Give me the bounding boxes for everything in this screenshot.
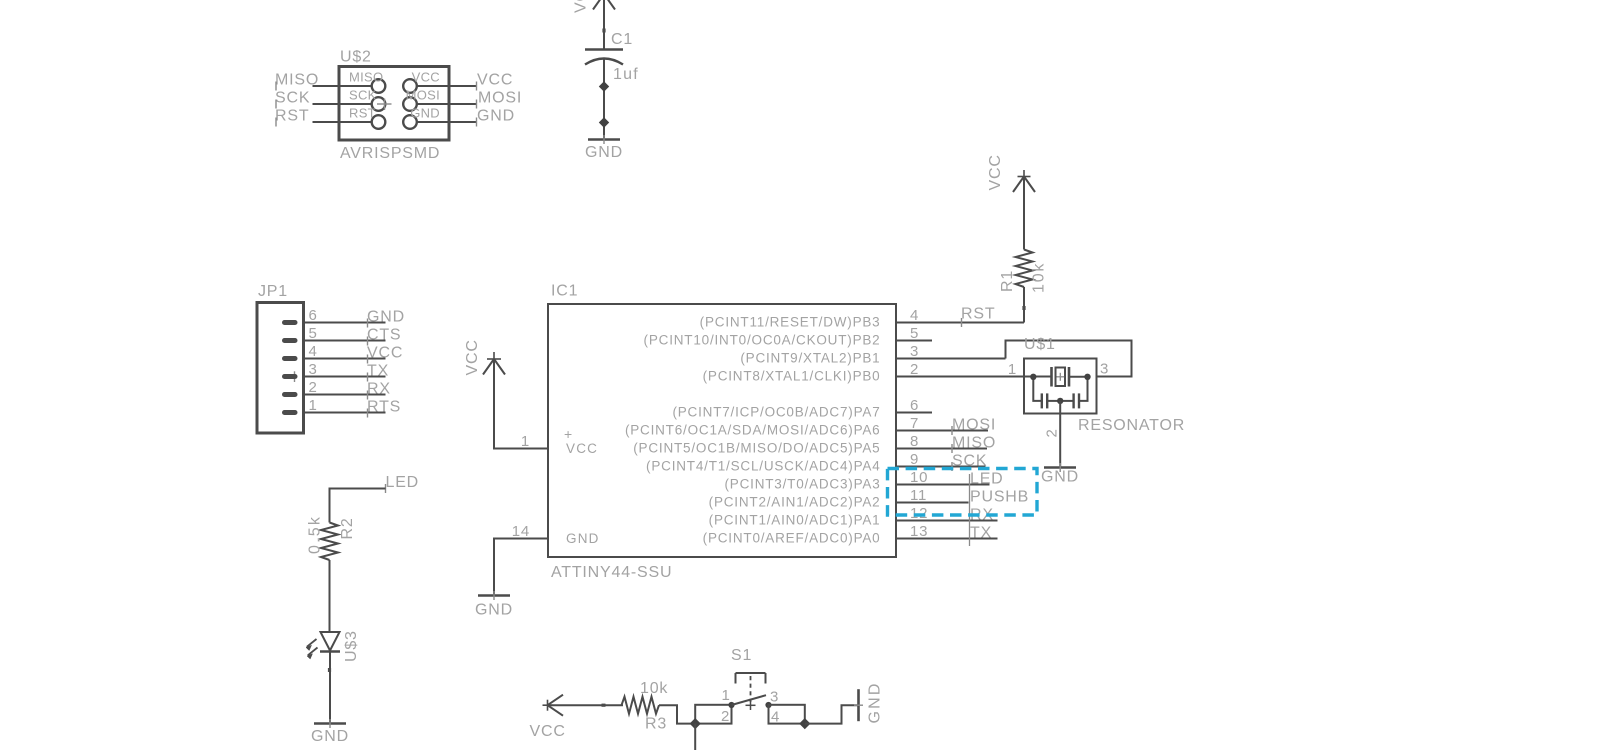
- svg-text:0.5k: 0.5k: [307, 515, 324, 554]
- svg-text:CTS: CTS: [367, 327, 401, 344]
- wire U$1 pin2 to ground: [1059, 401, 1061, 468]
- junction: [799, 718, 810, 729]
- wire VCC to R3: [548, 704, 624, 707]
- svg-text:LED: LED: [386, 474, 420, 491]
- wire S1 to ground: [805, 705, 859, 723]
- svg-text:C1: C1: [611, 31, 633, 48]
- switch S1: [728, 647, 771, 710]
- ground below C1: [585, 135, 623, 161]
- junction: [1084, 374, 1090, 380]
- IC1 pin 14 (GND) wire to ground: [494, 539, 548, 596]
- wire U$2 to MOSI: [417, 103, 477, 105]
- ground right of S1 (rotated): [854, 681, 884, 723]
- wire JP1 pin 6 to GND: [304, 322, 386, 324]
- svg-text:1uf: 1uf: [613, 66, 639, 83]
- svg-text:U$2: U$2: [340, 49, 372, 66]
- svg-text:2: 2: [309, 379, 318, 396]
- svg-text:GND: GND: [566, 531, 600, 546]
- resistor R2 0.5k: [307, 515, 357, 560]
- wire R2 to LED U$3: [328, 560, 331, 672]
- svg-text:(PCINT6/OC1A/SDA/MOSI/ADC6)PA6: (PCINT6/OC1A/SDA/MOSI/ADC6)PA6: [625, 423, 881, 438]
- svg-text:3: 3: [770, 689, 779, 706]
- svg-text:IC1: IC1: [551, 283, 578, 300]
- svg-text:AVRISPSMD: AVRISPSMD: [340, 145, 440, 162]
- svg-text:MOSI: MOSI: [952, 417, 996, 434]
- svg-text:MISO: MISO: [349, 70, 383, 85]
- svg-text:TX: TX: [367, 363, 389, 380]
- resonator U$1: [1024, 336, 1185, 434]
- svg-text:MISO: MISO: [952, 435, 996, 452]
- ground below U$1: [1041, 463, 1079, 486]
- svg-text:R3: R3: [645, 716, 667, 733]
- svg-text:SCK: SCK: [349, 88, 377, 103]
- net label GND: [367, 309, 405, 328]
- wire JP1 pin 4 to VCC: [304, 358, 386, 360]
- svg-text:9: 9: [910, 451, 919, 468]
- IC1 pin 13 wire: [896, 538, 998, 540]
- junction: [1030, 374, 1036, 380]
- IC1 pin 6 wire: [896, 412, 932, 414]
- wire LED label to R2: [330, 489, 386, 523]
- JP1 origin cross: [294, 371, 296, 382]
- IC1 pin 1 (VCC) wire to VCC symbol: [494, 359, 548, 449]
- net label SCK: [275, 90, 310, 109]
- net label MISO: [952, 435, 996, 454]
- VCC symbol left of IC1: [464, 339, 505, 375]
- wire C1 to GND: [603, 58, 605, 140]
- svg-text:RST: RST: [275, 108, 309, 125]
- svg-text:2: 2: [721, 708, 730, 725]
- LED U$3: [306, 630, 360, 662]
- svg-text:11: 11: [910, 487, 927, 504]
- IC1 pin 3 wire: [896, 358, 1006, 360]
- wire SCK to U$2: [313, 103, 373, 105]
- svg-text:7: 7: [910, 415, 919, 432]
- IC1 pin 8 wire: [896, 448, 987, 450]
- svg-text:(PCINT10/INT0/OC0A/CKOUT)PB2: (PCINT10/INT0/OC0A/CKOUT)PB2: [644, 333, 881, 348]
- svg-text:5: 5: [910, 325, 919, 342]
- net label MOSI: [952, 417, 996, 436]
- svg-text:VCC: VCC: [477, 72, 513, 89]
- svg-text:GND: GND: [475, 602, 513, 619]
- U$2 inner pin names: [349, 70, 440, 121]
- svg-text:VCC: VCC: [987, 154, 1004, 190]
- net label TX: [367, 363, 389, 382]
- svg-text:U$3: U$3: [343, 630, 360, 662]
- svg-text:S1: S1: [731, 647, 752, 664]
- svg-text:13: 13: [910, 523, 928, 540]
- svg-text:VCC: VCC: [367, 345, 403, 362]
- svg-text:RST: RST: [961, 306, 995, 323]
- capacitor C1 supply: VCC symbol (top, partially cut off): [573, 0, 616, 50]
- net label CTS: [367, 327, 401, 346]
- connector JP1: [257, 283, 304, 433]
- svg-text:VCC: VCC: [412, 70, 440, 85]
- net label RST: [961, 306, 995, 328]
- VCC symbol left arrow (bottom): [530, 695, 566, 740]
- wire JP1 pin 5 to CTS: [304, 340, 386, 342]
- highlight box around LED/PUSHB nets: [888, 469, 1038, 516]
- capacitor C1: [585, 31, 639, 83]
- resistor R1 10k: [999, 177, 1048, 323]
- wire JP1 pin 2 to RX: [304, 394, 386, 396]
- svg-text:U$1: U$1: [1024, 336, 1056, 353]
- net label MOSI: [477, 90, 523, 109]
- svg-text:GND: GND: [585, 144, 623, 161]
- wire U$2 to GND: [417, 121, 477, 123]
- svg-text:RTS: RTS: [367, 399, 401, 416]
- svg-text:(PCINT3/T0/ADC3)PA3: (PCINT3/T0/ADC3)PA3: [725, 477, 881, 492]
- svg-text:1: 1: [309, 397, 318, 414]
- ground below U$3: [311, 719, 349, 745]
- wire JP1 pin 1 to RTS: [304, 412, 386, 414]
- net label RST: [275, 108, 309, 127]
- svg-text:2: 2: [910, 361, 919, 378]
- svg-text:(PCINT11/RESET/DW)PB3: (PCINT11/RESET/DW)PB3: [700, 315, 881, 330]
- wire IC1 pin3 to resonator pin3 (bypass): [1006, 341, 1132, 377]
- wire junction to PUSHB (bottom edge): [694, 724, 696, 750]
- connector U$2 AVRISPSMD: [339, 49, 449, 163]
- net label SCK: [952, 453, 987, 472]
- svg-text:MISO: MISO: [275, 72, 319, 89]
- svg-text:VCC: VCC: [566, 441, 598, 456]
- svg-text:R2: R2: [339, 517, 356, 539]
- svg-text:GND: GND: [311, 728, 349, 745]
- IC1 pin 2 wire: [896, 376, 1052, 378]
- U$1 load capacitor left: [1033, 377, 1060, 409]
- svg-text:14: 14: [512, 523, 530, 540]
- svg-text:R1: R1: [999, 270, 1016, 292]
- svg-text:10k: 10k: [1031, 262, 1048, 293]
- net label LED near R2: [386, 474, 420, 493]
- svg-text:VCC: VCC: [464, 339, 481, 375]
- svg-text:(PCINT5/OC1B/MISO/DO/ADC5)PA5: (PCINT5/OC1B/MISO/DO/ADC5)PA5: [633, 441, 880, 456]
- wire U$3 to ground: [329, 652, 331, 724]
- svg-text:GND: GND: [410, 106, 440, 121]
- svg-text:4: 4: [910, 307, 919, 324]
- label origin line: [969, 474, 971, 546]
- svg-text:+: +: [564, 426, 573, 442]
- svg-text:RST: RST: [349, 106, 376, 121]
- svg-text:SCK: SCK: [275, 90, 310, 107]
- ground below IC1: [475, 591, 513, 619]
- svg-text:RESONATOR: RESONATOR: [1078, 417, 1185, 434]
- svg-text:1: 1: [1008, 361, 1017, 378]
- net label VCC: [367, 345, 403, 364]
- svg-text:3: 3: [309, 361, 318, 378]
- wire JP1 pin 3 to TX: [304, 376, 386, 378]
- JP1 pins: [285, 323, 296, 413]
- svg-text:GND: GND: [367, 309, 405, 326]
- svg-text:GND: GND: [477, 108, 515, 125]
- VCC symbol above R1: [987, 154, 1035, 192]
- svg-text:PUSHB: PUSHB: [970, 489, 1029, 506]
- U$2 pin pads: [372, 79, 417, 129]
- svg-text:MOSI: MOSI: [406, 88, 440, 103]
- svg-text:3: 3: [1100, 361, 1109, 378]
- crystal inside U$1: [1052, 367, 1088, 387]
- IC1 pin 10 wire: [896, 484, 990, 486]
- svg-text:VCC: VCC: [530, 723, 566, 740]
- svg-text:2: 2: [1044, 428, 1061, 437]
- wire U$2 to VCC: [417, 85, 477, 87]
- wire RST to U$2: [313, 121, 373, 123]
- net label GND: [477, 108, 515, 127]
- svg-text:(PCINT1/AIN0/ADC1)PA1: (PCINT1/AIN0/ADC1)PA1: [709, 513, 881, 528]
- svg-text:(PCINT7/ICP/OC0B/ADC7)PA7: (PCINT7/ICP/OC0B/ADC7)PA7: [672, 405, 880, 420]
- U$1 load capacitor right: [1060, 377, 1087, 409]
- svg-text:10: 10: [910, 469, 928, 486]
- svg-text:4: 4: [309, 343, 318, 360]
- net label RX: [367, 381, 391, 400]
- IC1 pin 5 wire: [896, 340, 932, 342]
- svg-text:6: 6: [309, 307, 318, 324]
- svg-text:RX: RX: [367, 381, 391, 398]
- svg-text:(PCINT9/XTAL2)PB1: (PCINT9/XTAL2)PB1: [740, 351, 880, 366]
- IC1 pin 4 wire: [896, 322, 1024, 324]
- U$2 origin cross: [377, 99, 392, 111]
- junction: [599, 81, 609, 91]
- junction: [690, 718, 701, 729]
- pin name + VCC: [564, 426, 598, 456]
- svg-text:5: 5: [309, 325, 318, 342]
- IC1 pin 12 wire: [896, 520, 998, 522]
- IC1 pin 7 wire: [896, 430, 988, 432]
- svg-text:GND: GND: [867, 681, 884, 723]
- svg-text:8: 8: [910, 433, 919, 450]
- svg-text:1: 1: [521, 433, 530, 450]
- net label RTS: [367, 399, 401, 418]
- svg-text:GND: GND: [1041, 469, 1079, 486]
- svg-text:MOSI: MOSI: [478, 90, 522, 107]
- svg-text:LED: LED: [970, 471, 1004, 488]
- svg-text:6: 6: [910, 397, 919, 414]
- svg-text:JP1: JP1: [258, 283, 288, 300]
- S1 pins 3-4 loop: [769, 705, 805, 724]
- svg-text:1: 1: [722, 687, 731, 704]
- svg-text:3: 3: [910, 343, 919, 360]
- svg-text:10k: 10k: [640, 680, 668, 697]
- svg-text:ATTINY44-SSU: ATTINY44-SSU: [551, 564, 672, 581]
- svg-text:(PCINT4/T1/SCL/USCK/ADC4)PA4: (PCINT4/T1/SCL/USCK/ADC4)PA4: [646, 459, 880, 474]
- junction: [1057, 398, 1063, 404]
- IC1 pin 11 wire: [896, 502, 969, 504]
- S1 pins 1-2 loop: [695, 705, 731, 724]
- wire R3 to S1 pins 1/2 loop: [659, 705, 695, 723]
- svg-text:(PCINT8/XTAL1/CLKI)PB0: (PCINT8/XTAL1/CLKI)PB0: [703, 369, 881, 384]
- svg-text:VCC: VCC: [573, 0, 590, 13]
- IC1 pin 9 wire: [896, 466, 986, 468]
- wire MISO to U$2: [313, 85, 373, 87]
- svg-text:(PCINT0/AREF/ADC0)PA0: (PCINT0/AREF/ADC0)PA0: [703, 531, 881, 546]
- junction: [599, 117, 609, 127]
- svg-text:(PCINT2/AIN1/ADC2)PA2: (PCINT2/AIN1/ADC2)PA2: [709, 495, 881, 510]
- net label VCC: [477, 72, 514, 91]
- svg-text:TX: TX: [970, 525, 992, 542]
- resistor R3 10k: [622, 680, 669, 733]
- IC1 ATTINY44-SSU body: [548, 283, 896, 582]
- net label MISO: [275, 72, 319, 91]
